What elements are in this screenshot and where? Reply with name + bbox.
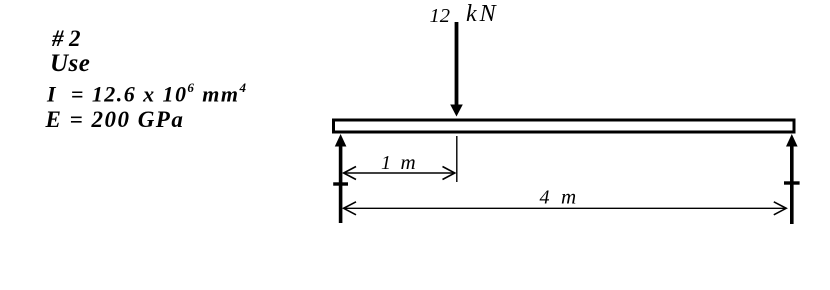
extension line below load point: [456, 136, 458, 182]
problem number label "#2": [52, 26, 86, 52]
dimension "4 m" right arrowhead: [774, 202, 786, 215]
svg-text:12: 12: [430, 5, 451, 27]
text line "I = 12.6 x 10^6 mm^4": [47, 81, 247, 107]
left support reaction arrow shaft: [339, 142, 343, 223]
load force arrowhead: [450, 105, 463, 117]
left support tick mark: [333, 182, 348, 185]
load force arrow (12 kN point load) shaft: [455, 22, 459, 106]
svg-text:m: m: [401, 150, 416, 174]
left support reaction arrowhead: [335, 134, 347, 147]
dimension "4 m" left arrowhead: [344, 202, 356, 215]
svg-text:m: m: [561, 185, 576, 209]
svg-text:kN: kN: [466, 1, 499, 27]
dimension "1 m" right arrowhead: [443, 167, 455, 180]
dimension "1 m" left arrowhead: [344, 167, 356, 180]
right support reaction arrowhead: [786, 134, 798, 147]
svg-text:4: 4: [540, 187, 550, 209]
text line "Use": [50, 50, 90, 78]
text line "E = 200 GPa": [46, 107, 185, 133]
dimension line "1 m": [345, 172, 454, 174]
beam (rectangle): [334, 120, 795, 132]
right support tick mark: [784, 181, 800, 184]
right support reaction arrow shaft: [790, 142, 794, 224]
svg-text:1: 1: [381, 152, 391, 174]
dimension line "4 m": [345, 207, 785, 209]
